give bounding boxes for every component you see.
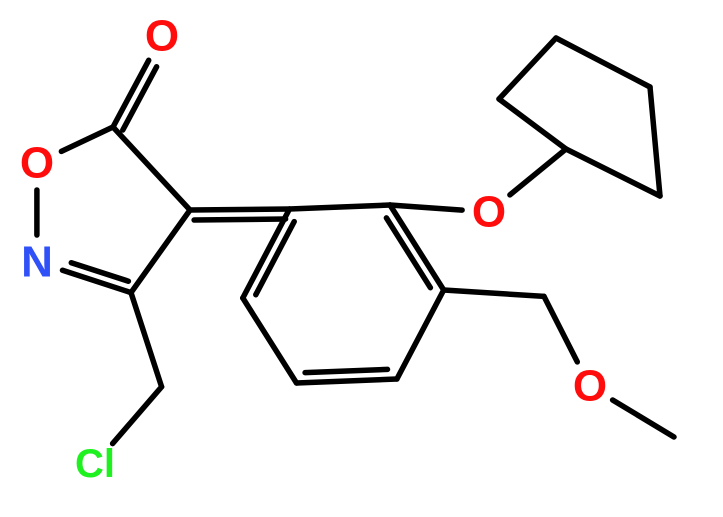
wire A2-A3 double (390, 205, 444, 290)
wire O1-N2 (34, 190, 40, 235)
wire C3-C4 (131, 210, 190, 293)
wire E1-P5 (499, 99, 566, 149)
svg-text:N: N (21, 238, 53, 287)
wire A1-A2 (290, 205, 391, 209)
svg-text:Cl: Cl (75, 442, 115, 486)
svg-text:O: O (472, 188, 506, 237)
wire O1-C5 (61, 127, 113, 151)
wire R5-E2 (650, 87, 660, 196)
wire N2=C3 double (63, 270, 132, 292)
svg-text:O: O (20, 139, 54, 188)
wire CH2-Cl (113, 387, 162, 444)
wire C4-C5 (113, 127, 190, 210)
wire C5=Oald double (113, 60, 149, 127)
svg-text:O: O (145, 12, 179, 61)
wire Om-Me (613, 400, 674, 437)
wire Q5-R5 (556, 38, 650, 87)
wire A6-A1 double (243, 209, 290, 298)
wire C4=A1 double (190, 209, 290, 210)
wire A3-A4 (397, 290, 444, 379)
wire A4-A5 double (297, 379, 397, 383)
wire A3-M1 (444, 290, 544, 296)
wire Oe-E1 (510, 149, 566, 195)
wire P5-Q5 (499, 38, 556, 99)
svg-text:O: O (573, 362, 607, 411)
wire C3-CH2 (131, 293, 162, 387)
wire A2-Oe (390, 205, 462, 210)
wire A5-A6 (243, 298, 297, 383)
wire E2-E1 (566, 149, 660, 196)
wire M1-Om (544, 296, 577, 362)
